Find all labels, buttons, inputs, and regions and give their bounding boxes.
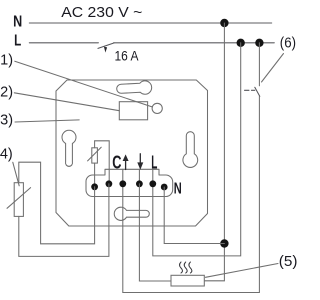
arrow up: [125, 160, 127, 170]
heating element (5): [171, 275, 204, 286]
svg-text:N: N: [174, 180, 182, 197]
svg-text:(2): (2): [0, 84, 13, 100]
terminal dot 3: [119, 180, 126, 187]
breaker 16A blade: [98, 43, 114, 49]
stub terminal 3: [122, 169, 124, 184]
terminal dot 6: [161, 184, 168, 191]
wire external sensor top to terminal 1: [19, 162, 95, 244]
svg-text:L: L: [14, 32, 21, 49]
thermostat body outline (3): [56, 80, 208, 226]
wire external sensor bottom to terminal 2: [19, 184, 109, 257]
wire L bus line right segment: [114, 42, 275, 44]
internal sensor (NTC) body: [92, 148, 98, 163]
junction dot on N bus: [220, 19, 228, 27]
internal sensor wire to terminal 1: [94, 163, 96, 187]
svg-text:(3): (3): [0, 113, 13, 129]
switch S6 actuator dashes: [245, 89, 255, 91]
breaker 16A actuator arrow: [104, 47, 107, 53]
arrow down: [139, 154, 141, 164]
wire L bus line left segment: [29, 42, 98, 44]
terminal dot 2: [106, 180, 113, 187]
svg-text:(1): (1): [0, 52, 13, 68]
wire L drop to terminal 5: [153, 43, 241, 256]
svg-text:(5): (5): [279, 254, 298, 270]
stub terminal 5: [152, 169, 154, 184]
svg-text:N: N: [13, 14, 22, 31]
internal sensor loop wire to terminal 2: [95, 141, 110, 184]
leader line to (3): [15, 120, 79, 122]
top slot (peanut): [116, 80, 152, 95]
wire N bus line: [29, 22, 271, 24]
heat squiggle 3: [189, 262, 192, 273]
leader line to (5): [206, 264, 279, 278]
terminal dot 1: [91, 183, 98, 190]
junction dot on L bus at x=240.7: [237, 39, 245, 47]
heat squiggle 2: [184, 262, 187, 273]
wire L drop upper segment to switch 6: [258, 43, 260, 86]
leader line to (4): [13, 162, 19, 186]
internal sensor diagonal: [88, 147, 102, 161]
external floor sensor body (4): [14, 183, 23, 217]
wire terminal 6 to N junction: [164, 187, 224, 244]
leader line to (2): [14, 93, 119, 111]
stub terminal 4: [138, 169, 140, 184]
left keyhole slot: [62, 130, 76, 166]
svg-text:16 A: 16 A: [115, 48, 140, 64]
junction dot N drop / terminal6 wire: [220, 239, 228, 247]
wire terminal 4 to heater left: [139, 184, 171, 281]
svg-text:C: C: [112, 152, 121, 173]
leader line to (1): [15, 61, 152, 107]
wire switched L from switch 6 to terminal 3: [123, 96, 260, 292]
switch S6 blade: [255, 87, 260, 96]
svg-text:(6): (6): [280, 36, 296, 52]
terminal dot 5: [149, 180, 156, 187]
connector block pointed by (2): [119, 102, 147, 120]
svg-text:(4): (4): [0, 147, 13, 163]
bottom slot (peanut): [114, 207, 149, 220]
junction dot on L bus at x=259.4: [255, 39, 263, 47]
right keyhole slot: [183, 132, 198, 168]
terminal dot 4: [136, 180, 143, 187]
leader line to (6): [262, 54, 284, 83]
part circle pointed by (1): [152, 103, 162, 113]
external sensor diagonal: [7, 188, 31, 209]
terminal block outline: [86, 169, 173, 196]
svg-text:L: L: [151, 152, 157, 173]
wire N drop to heater right (via junction at y=243.5): [205, 23, 225, 281]
svg-text:AC 230 V ~: AC 230 V ~: [61, 4, 142, 21]
heat squiggle 1: [180, 262, 183, 273]
